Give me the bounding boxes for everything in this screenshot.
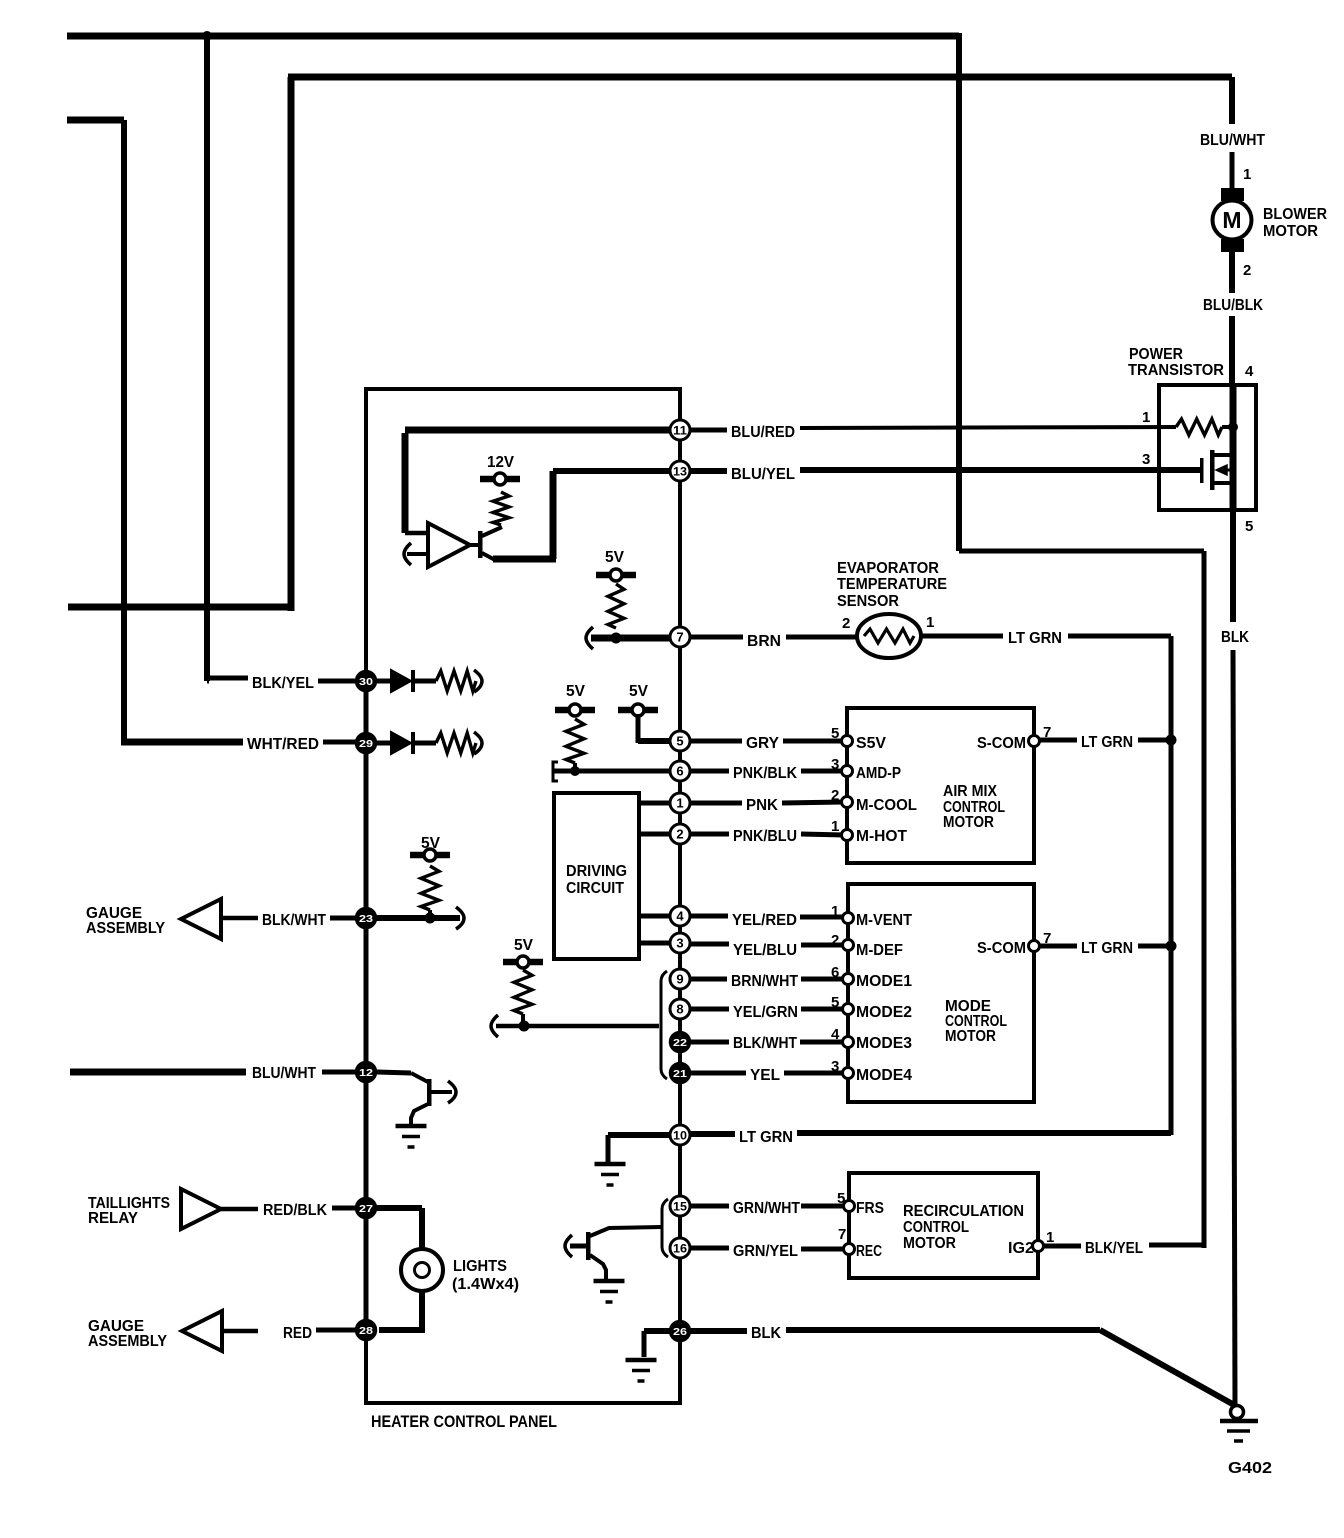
svg-text:10: 10: [673, 1129, 687, 1143]
wire inside power transistor: [1230, 385, 1237, 510]
wire AMD-P feed: [553, 769, 671, 774]
wire BRN/WHT left: [690, 977, 727, 982]
svg-text:MOTOR: MOTOR: [945, 1028, 996, 1045]
wire to connector 29 horizontal: [121, 739, 243, 746]
wire power A to IG2 vertical: [1202, 551, 1207, 1248]
transistor Q1 emitter: [482, 553, 497, 561]
svg-text:16: 16: [673, 1242, 687, 1256]
ground at 26: [626, 1358, 657, 1363]
connector 26: [670, 1321, 690, 1341]
wire 5V mode feed: [496, 1024, 659, 1029]
wire driving to 3: [639, 941, 671, 946]
wire BLK 26 left: [690, 1328, 747, 1334]
arrow gauge assembly top: [181, 899, 221, 939]
wire driving to 2: [639, 832, 671, 837]
wire panel edge 22-21: [678, 1052, 682, 1063]
resistor power transistor: [1176, 419, 1222, 435]
wire emitter riser: [550, 471, 557, 559]
transistor Q1 base bar: [478, 531, 483, 558]
recirculation control motor box: [849, 1173, 1038, 1278]
resistor 5V pullup left: [566, 719, 584, 763]
mode control motor box: [848, 884, 1034, 1102]
resistor 12V pullup: [493, 492, 509, 525]
svg-text:MODE4: MODE4: [856, 1067, 912, 1084]
wire to connector 30 horizontal: [207, 676, 248, 681]
wire panel edge 29-23: [364, 753, 369, 908]
wire BLK/YEL into 30: [318, 679, 358, 684]
svg-text:GRN/YEL: GRN/YEL: [733, 1243, 798, 1260]
wire 30 to diode: [376, 679, 391, 684]
svg-text:12V: 12V: [487, 454, 514, 471]
svg-text:CONTROL: CONTROL: [903, 1219, 969, 1236]
wire BRN to sensor: [786, 635, 856, 640]
junction dot at 7: [611, 633, 622, 644]
hook R2 end: [474, 732, 482, 754]
svg-text:1: 1: [831, 903, 839, 920]
wire YEL/BLU to M-DEF: [801, 943, 844, 948]
bracket Q2 base left end: [565, 1235, 572, 1257]
svg-text:5: 5: [831, 994, 839, 1011]
connector 21: [670, 1063, 690, 1083]
pin M-COOL: [842, 797, 853, 808]
svg-text:3: 3: [831, 756, 839, 773]
air mix control motor box: [847, 708, 1034, 863]
svg-text:WHT/RED: WHT/RED: [247, 736, 319, 753]
wire panel edge 2-4: [678, 844, 682, 906]
svg-text:5V: 5V: [566, 683, 585, 700]
ground at 10: [595, 1162, 626, 1167]
svg-text:YEL/GRN: YEL/GRN: [733, 1004, 798, 1021]
wire sensor to LT GRN: [922, 634, 1003, 639]
svg-text:M-DEF: M-DEF: [856, 942, 903, 959]
pin M-DEF: [843, 940, 854, 951]
svg-text:BRN/WHT: BRN/WHT: [731, 973, 798, 990]
pin M-HOT: [842, 830, 853, 841]
wire WHT/RED into 29: [323, 740, 358, 745]
svg-text:MOTOR: MOTOR: [943, 814, 994, 831]
wire BLK/YEL to IG2 segment: [1149, 1243, 1206, 1248]
pin S-COM mode: [1029, 941, 1040, 952]
pin AMD-P: [842, 766, 853, 777]
svg-text:5V: 5V: [421, 835, 440, 852]
connector 3: [670, 933, 690, 953]
wire panel edge 16-26: [678, 1258, 682, 1321]
wire lamp to 28: [379, 1327, 422, 1333]
mosfet Q power source link: [1212, 481, 1233, 485]
junction dot bus mode: [1166, 941, 1177, 952]
connector 1: [670, 793, 690, 813]
wire driving to 1: [639, 801, 671, 806]
wire BLU/WHT 12 feed: [70, 1069, 246, 1076]
svg-text:2: 2: [1243, 262, 1251, 279]
wire IG2 stub: [1044, 1244, 1081, 1249]
wire power B top horizontal: [288, 74, 1232, 81]
svg-text:POWER: POWER: [1129, 346, 1183, 363]
wire panel edge 3-9: [678, 953, 682, 969]
resistor 5V pullup 23: [421, 866, 439, 910]
svg-text:S-COM: S-COM: [977, 940, 1026, 957]
wire resistor to bus wire: [521, 1014, 525, 1026]
pin S5V: [842, 736, 853, 747]
svg-text:MOTOR: MOTOR: [903, 1235, 956, 1252]
pin S-COM airmix: [1029, 736, 1040, 747]
connector 30: [356, 671, 376, 691]
bracket group 9-8-22-21: [661, 971, 667, 1079]
wire arrow shaft 27: [221, 1207, 258, 1212]
svg-text:1: 1: [831, 818, 839, 835]
wire YEL/BLU left: [690, 942, 729, 947]
wire lamp bottom drop: [419, 1290, 425, 1333]
wire 11 to amplifier: [405, 427, 671, 434]
connector 8: [670, 999, 690, 1019]
mosfet Q power channel bar: [1210, 450, 1215, 490]
power transistor box: [1159, 385, 1256, 510]
connector 11: [670, 420, 690, 440]
wire PNK/BLU left: [690, 832, 729, 837]
bracket wire 7 left end: [586, 627, 593, 649]
svg-text:MOTOR: MOTOR: [1263, 223, 1318, 240]
wire BRN/WHT to MODE1: [801, 977, 844, 982]
wire Q2 base feed: [570, 1244, 587, 1249]
wire LT GRN to bus: [1068, 634, 1171, 639]
wire S-COM to LT GRN: [1040, 738, 1077, 743]
wire GRY left: [690, 739, 742, 744]
wire LT GRN mode to bus: [1138, 944, 1171, 949]
wire GRN/WHT left: [690, 1204, 729, 1209]
wire power B vertical: [288, 77, 295, 611]
connector 6: [670, 761, 690, 781]
connector 13: [670, 461, 690, 481]
wire BLU/RED left: [690, 428, 727, 433]
wire panel edge 5-6: [678, 751, 682, 761]
wire panel edge 12-27: [364, 1082, 369, 1198]
wire branch to connector 30 vertical: [204, 33, 210, 681]
wire GRN/YEL to REC: [801, 1247, 845, 1252]
svg-text:5V: 5V: [605, 549, 624, 566]
evaporator temperature sensor: [857, 614, 921, 658]
wire to connector 29 vertical: [121, 120, 127, 742]
svg-text:11: 11: [673, 424, 687, 438]
wire panel edge 21-10: [678, 1083, 682, 1125]
svg-text:5: 5: [676, 734, 683, 749]
wire panel edge 7-5: [678, 647, 682, 731]
wire 5V to connector 5: [636, 714, 641, 743]
wire blower to pin2: [1229, 252, 1235, 293]
svg-text:3: 3: [676, 936, 683, 951]
wire BRN left: [690, 635, 743, 640]
svg-text:BLU/WHT: BLU/WHT: [1200, 132, 1265, 149]
wire resistor to AMD-P wire: [573, 763, 577, 771]
wire RED/BLK into 27: [332, 1206, 358, 1211]
wire LT GRN bus vertical: [1169, 636, 1174, 1135]
svg-text:M-HOT: M-HOT: [856, 828, 907, 845]
wire BLK to ground G402: [1233, 650, 1235, 1406]
svg-text:(1.4Wx4): (1.4Wx4): [452, 1276, 519, 1293]
svg-text:BLU/YEL: BLU/YEL: [731, 466, 795, 483]
wire into 7: [591, 635, 671, 642]
power 5V supply at 7: [610, 569, 622, 581]
wire panel edge 4-3: [678, 926, 682, 933]
wire BLU/YEL left: [690, 468, 727, 474]
wire BLK/WHT into 23: [330, 916, 358, 921]
connector 9: [670, 969, 690, 989]
svg-text:RED/BLK: RED/BLK: [263, 1202, 327, 1219]
mosfet Q power gate bar: [1200, 458, 1204, 483]
junction dot AMD-P: [570, 766, 580, 776]
wire BLK/WHT 22 left: [690, 1040, 729, 1045]
svg-text:TRANSISTOR: TRANSISTOR: [1128, 362, 1224, 379]
wire panel edge 13-7: [678, 481, 682, 627]
resistor 5V pullup mode: [514, 970, 532, 1014]
junction dot bus airmix: [1166, 735, 1177, 746]
wire BLK upper: [1230, 510, 1236, 622]
svg-text:IG2: IG2: [1008, 1240, 1034, 1257]
svg-text:6: 6: [676, 764, 683, 779]
svg-text:MODE1: MODE1: [856, 973, 912, 990]
connector 10: [670, 1125, 690, 1145]
svg-text:MODE2: MODE2: [856, 1004, 912, 1021]
svg-text:1: 1: [926, 614, 934, 631]
svg-text:GRN/WHT: GRN/WHT: [733, 1200, 800, 1217]
wire BLU/YEL to mosfet gate: [800, 467, 1200, 473]
wire BLU/WHT upper segment: [1229, 77, 1235, 124]
svg-text:PNK: PNK: [746, 797, 778, 814]
svg-text:BLU/BLK: BLU/BLK: [1203, 297, 1263, 314]
wire buffer to base: [470, 543, 479, 547]
mosfet Q power drain link: [1212, 453, 1233, 457]
svg-text:BRN: BRN: [747, 633, 781, 650]
resistor 5V pullup at 7: [608, 584, 624, 628]
svg-text:4: 4: [676, 909, 684, 924]
wire LT GRN 10 to bus: [797, 1130, 1171, 1136]
connector 16: [670, 1238, 690, 1258]
ground G402: [1220, 1419, 1258, 1424]
svg-text:7: 7: [676, 630, 683, 645]
svg-text:9: 9: [676, 972, 683, 987]
transistor Q2 base bar: [586, 1232, 591, 1260]
transistor Q1 collector: [482, 527, 502, 536]
svg-text:26: 26: [673, 1326, 687, 1338]
svg-text:4: 4: [831, 1026, 840, 1043]
pin REC: [844, 1244, 855, 1255]
resistor R1: [436, 671, 476, 691]
arrow gauge assembly bottom: [182, 1311, 222, 1351]
hook Q3 collector end: [448, 1081, 456, 1103]
bracket AMD-P wire left end: [553, 762, 558, 781]
svg-text:RECIRCULATION: RECIRCULATION: [903, 1203, 1024, 1220]
wire panel edge 8-22: [678, 1019, 682, 1032]
svg-text:2: 2: [676, 827, 683, 842]
svg-text:3: 3: [831, 1058, 839, 1075]
svg-text:EVAPORATOR: EVAPORATOR: [837, 560, 939, 577]
svg-text:LIGHTS: LIGHTS: [453, 1258, 507, 1275]
diode D1: [391, 670, 411, 692]
svg-text:23: 23: [359, 913, 373, 925]
driving circuit box: [554, 793, 639, 959]
power 5V supply mode group: [517, 956, 529, 968]
wire panel edge 11-13: [678, 440, 682, 461]
svg-text:ASSEMBLY: ASSEMBLY: [88, 1333, 167, 1350]
wire panel edge 10-15: [678, 1145, 682, 1196]
connector 29: [356, 733, 376, 753]
wire panel edge 6-1: [678, 781, 682, 793]
wire power feed A top: [67, 33, 959, 40]
svg-text:AMD-P: AMD-P: [856, 765, 901, 782]
wire BLU/RED to power transistor: [800, 427, 1176, 428]
svg-text:BLU/RED: BLU/RED: [731, 424, 795, 441]
connector 4: [670, 906, 690, 926]
wire arrow shaft 23: [221, 916, 258, 921]
svg-text:GRY: GRY: [746, 735, 779, 752]
wire YEL/RED left: [690, 914, 728, 919]
wire 26 ground stub: [644, 1328, 671, 1334]
svg-text:2: 2: [831, 787, 839, 804]
wire panel edge 1-2: [678, 813, 682, 824]
power 5V supply right of 5: [632, 704, 644, 716]
wire PNK/BLK left: [690, 769, 729, 774]
blower motor brush bottom: [1221, 239, 1244, 252]
svg-text:HEATER CONTROL PANEL: HEATER CONTROL PANEL: [371, 1412, 557, 1431]
junction dot node A: [202, 31, 212, 41]
wire RED into 28: [316, 1328, 358, 1333]
wire GRN/YEL left: [690, 1246, 729, 1251]
blower motor brush top: [1221, 188, 1244, 201]
svg-text:8: 8: [676, 1002, 683, 1017]
wire 23 resistor join: [428, 910, 432, 915]
wire power A right vertical: [956, 33, 962, 551]
wire BLK diagonal to G402: [1100, 1330, 1236, 1406]
wire lamp top drop: [419, 1208, 425, 1250]
bracket group 15-16: [662, 1199, 668, 1257]
svg-text:2: 2: [831, 932, 839, 949]
svg-text:S-COM: S-COM: [977, 735, 1026, 752]
wire 10 ground drop: [606, 1135, 611, 1162]
svg-text:ASSEMBLY: ASSEMBLY: [86, 920, 165, 937]
svg-text:30: 30: [359, 676, 373, 688]
svg-text:3: 3: [1142, 451, 1150, 468]
svg-text:BLK/YEL: BLK/YEL: [1085, 1240, 1143, 1257]
wire panel edge 30-29: [364, 691, 369, 733]
svg-text:M: M: [1222, 207, 1241, 233]
pin MODE1: [843, 974, 854, 985]
wire S-COM mode to LT GRN: [1040, 944, 1077, 949]
svg-text:2: 2: [842, 615, 850, 632]
ground at Q2: [594, 1279, 625, 1284]
svg-text:PNK/BLU: PNK/BLU: [733, 828, 797, 845]
junction dot power transistor: [1228, 422, 1238, 432]
svg-text:4: 4: [1245, 363, 1254, 380]
svg-text:G402: G402: [1228, 1460, 1272, 1477]
svg-text:SENSOR: SENSOR: [837, 593, 899, 610]
hook R1 end: [474, 670, 482, 692]
svg-text:FRS: FRS: [856, 1200, 884, 1217]
wire 10 ground stub: [608, 1132, 671, 1138]
svg-text:RELAY: RELAY: [88, 1210, 138, 1227]
bracket amplifier lower input: [404, 543, 411, 565]
wire 23 right: [376, 915, 460, 921]
svg-text:CIRCUIT: CIRCUIT: [566, 880, 624, 897]
svg-text:1: 1: [1142, 409, 1150, 426]
svg-text:5V: 5V: [514, 937, 533, 954]
svg-text:13: 13: [673, 465, 687, 479]
wire GRN/WHT to FRS: [801, 1204, 845, 1209]
transistor Q3 base link: [411, 1073, 428, 1082]
svg-text:RED: RED: [283, 1325, 312, 1342]
wire arrow shaft 28: [222, 1329, 258, 1334]
connector 27: [356, 1198, 376, 1218]
wire BLU/BLK: [1229, 316, 1235, 387]
svg-text:DRIVING: DRIVING: [566, 863, 627, 880]
wire 13 left segment: [553, 468, 671, 474]
svg-text:BLK/YEL: BLK/YEL: [252, 675, 314, 692]
wire PNK/BLK to AMD-P: [801, 769, 844, 774]
connector 12: [356, 1062, 376, 1082]
svg-text:BLK: BLK: [1221, 629, 1249, 646]
svg-text:5V: 5V: [629, 683, 648, 700]
svg-text:M-VENT: M-VENT: [856, 912, 912, 929]
svg-text:BLU/WHT: BLU/WHT: [252, 1065, 316, 1082]
svg-text:LT GRN: LT GRN: [739, 1129, 793, 1146]
wire PNK/BLU to M-HOT: [801, 834, 844, 835]
connector 5: [670, 731, 690, 751]
wire emitter to 13 horizontal: [493, 556, 556, 563]
connector 15: [670, 1196, 690, 1216]
svg-text:7: 7: [838, 1226, 846, 1243]
svg-text:PNK/BLK: PNK/BLK: [733, 765, 797, 782]
svg-text:BLK/WHT: BLK/WHT: [733, 1035, 797, 1052]
svg-text:1: 1: [1046, 1229, 1054, 1246]
wire BLU/WHT into 12: [322, 1070, 358, 1075]
arrow taillights relay: [181, 1189, 221, 1229]
wire driving to 4: [639, 914, 671, 919]
power 5V supply 23: [424, 849, 436, 861]
svg-text:YEL/RED: YEL/RED: [732, 912, 797, 929]
svg-text:YEL/BLU: YEL/BLU: [733, 942, 797, 959]
ground at Q3: [396, 1124, 427, 1129]
pin MODE4: [843, 1068, 854, 1079]
wire BLK 26 right: [786, 1327, 1100, 1333]
connector 22: [670, 1032, 690, 1052]
svg-text:TEMPERATURE: TEMPERATURE: [837, 576, 947, 593]
hook 23 wire end: [456, 907, 464, 929]
transistor Q2 collector: [590, 1227, 661, 1236]
wire amplifier input horizontal: [405, 531, 428, 536]
ground G402 terminal: [1231, 1406, 1244, 1419]
bracket mode feed left end: [491, 1015, 498, 1037]
wire 27 to lamp: [376, 1205, 422, 1211]
wire panel edge 27-28: [364, 1218, 369, 1320]
svg-text:12: 12: [359, 1067, 373, 1079]
svg-text:6: 6: [831, 964, 839, 981]
wire 29 to diode: [376, 741, 391, 746]
svg-text:LT GRN: LT GRN: [1081, 734, 1133, 751]
wire YEL left: [690, 1071, 746, 1076]
heater control panel box: [366, 389, 680, 1403]
svg-text:15: 15: [673, 1200, 687, 1214]
svg-text:LT GRN: LT GRN: [1008, 630, 1062, 647]
wire BLK/WHT to MODE3: [800, 1040, 844, 1045]
power 5V supply left: [569, 704, 581, 716]
wire panel edge 9-8: [678, 989, 682, 999]
svg-text:BLK/WHT: BLK/WHT: [262, 912, 326, 929]
wire YEL/GRN left: [690, 1007, 729, 1012]
svg-text:21: 21: [673, 1068, 687, 1080]
svg-text:22: 22: [673, 1037, 687, 1049]
wire YEL/RED to M-VENT: [800, 915, 844, 920]
svg-text:5: 5: [1245, 518, 1253, 535]
pin M-VENT: [843, 913, 854, 924]
wire PNK to M-COOL: [782, 802, 844, 803]
